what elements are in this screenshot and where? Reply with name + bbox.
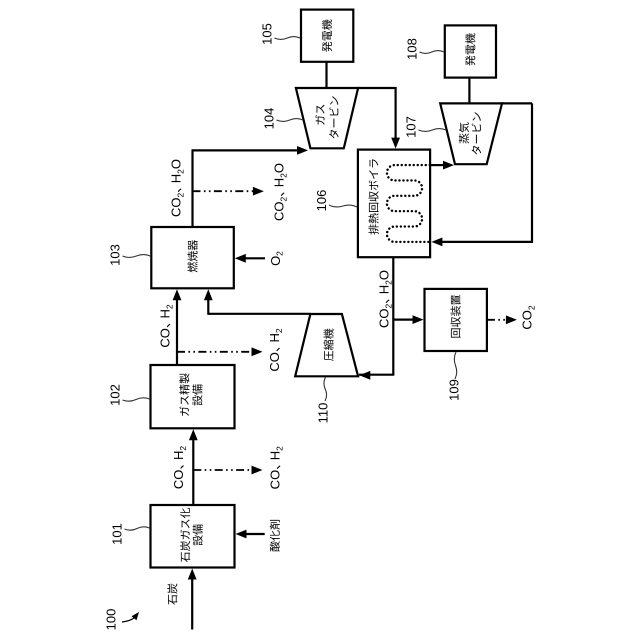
svg-text:O: O <box>268 256 283 266</box>
svg-text:CO: CO <box>268 470 283 490</box>
label CO,H2 below branch arrow <box>268 446 285 489</box>
svg-text:102: 102 <box>108 384 123 406</box>
wire oxidant into 101 <box>245 533 265 535</box>
svg-text:H: H <box>268 451 283 460</box>
svg-text:2: 2 <box>278 197 288 202</box>
svg-text:2: 2 <box>178 446 188 451</box>
leader 101 <box>125 527 150 530</box>
wire 102 to 103 CO,H2 <box>176 298 178 365</box>
svg-text:2: 2 <box>164 304 174 309</box>
wire branch CO,H2 dash-dot from 102-103 <box>177 351 254 353</box>
svg-text:CO: CO <box>272 202 287 222</box>
wire branch CO2,H2O dash-dot from 103-104 <box>193 190 255 192</box>
svg-text:CO: CO <box>169 198 184 218</box>
label CO2,H2O below branch arrow <box>272 163 289 221</box>
wire gas turbine 104 to generator 105 <box>325 62 327 88</box>
arrow for label 100 <box>122 616 137 623</box>
steam turbine 107 trapezoid 蒸気タービン <box>440 103 502 164</box>
wire branch to recovery 109 <box>393 319 414 321</box>
leader 108 <box>420 51 445 54</box>
svg-text:100: 100 <box>104 609 119 631</box>
box 105 generator 発電機 <box>301 10 353 62</box>
label CO,H2 above wire 102-103 <box>158 304 175 347</box>
wire steam turbine 107 to generator 108 <box>468 78 470 104</box>
label CO2,H2O above boiler outlet wire <box>377 270 394 328</box>
box 106 排熱回収ボイラ <box>358 150 430 258</box>
leader 107 <box>419 129 447 132</box>
svg-text:CO: CO <box>267 352 282 372</box>
wire 101 to 102 CO,H2 <box>192 438 194 505</box>
label CO2 out <box>520 305 537 330</box>
svg-text:106: 106 <box>314 190 329 212</box>
leader 103 <box>123 255 151 258</box>
svg-text:H: H <box>267 333 282 342</box>
svg-text:2: 2 <box>274 446 284 451</box>
svg-text:O: O <box>169 159 184 169</box>
label O2 <box>268 251 285 266</box>
svg-text:2: 2 <box>275 251 285 256</box>
svg-text:104: 104 <box>262 108 277 130</box>
leader 110 <box>324 377 327 401</box>
label CO,H2 above wire 101-102 <box>171 446 188 489</box>
svg-text:H: H <box>169 174 184 183</box>
svg-text:109: 109 <box>447 379 462 401</box>
svg-text:CO: CO <box>377 309 392 329</box>
box 101 石炭ガス化設備 <box>151 505 235 568</box>
svg-text:110: 110 <box>316 403 331 424</box>
wire coal feed into 101 <box>191 578 193 630</box>
gas turbine 104 trapezoid ガスタービン <box>296 88 358 148</box>
wire steam return turbine to boiler <box>501 102 532 104</box>
compressor 110 trapezoid 圧縮機 <box>295 314 358 376</box>
svg-text:H: H <box>158 309 173 318</box>
wire CO2 out of 109 dash-dot <box>487 319 508 321</box>
svg-text:CO: CO <box>171 470 186 490</box>
svg-text:CO: CO <box>520 310 535 330</box>
label oxidant 酸化剤 <box>270 520 280 552</box>
box 108 generator 発電機 <box>445 25 496 77</box>
wire gas turbine exhaust to boiler 106 <box>357 87 396 89</box>
leader 105 <box>275 37 301 40</box>
svg-text:2: 2 <box>175 193 185 198</box>
label CO2,H2O above wire 103-104 <box>169 159 186 217</box>
box 103 燃焼器 <box>151 227 234 288</box>
svg-text:108: 108 <box>405 38 420 60</box>
wire O2 into 103 <box>244 257 265 259</box>
wire branch CO,H2 dash-dot from 101-102 <box>193 469 253 471</box>
svg-text:107: 107 <box>404 116 419 138</box>
svg-text:103: 103 <box>108 244 123 266</box>
leader 109 <box>454 352 456 379</box>
leader 106 <box>329 205 357 207</box>
leader 104 <box>277 119 304 122</box>
wire 103 to gas turbine 104 CO2,H2O <box>191 150 193 227</box>
leader 102 <box>123 398 150 401</box>
svg-text:CO: CO <box>158 328 173 348</box>
label CO,H2 below branch arrow 102-103 <box>267 328 284 371</box>
svg-text:2: 2 <box>274 328 284 333</box>
svg-text:2: 2 <box>383 304 393 309</box>
boiler coil dotted serpentine <box>387 165 430 242</box>
svg-text:105: 105 <box>260 23 275 45</box>
svg-text:H: H <box>377 285 392 294</box>
svg-text:H: H <box>272 178 287 187</box>
label coal 石炭 <box>167 583 177 604</box>
wire boiler flue gas to compressor 110 <box>392 257 394 375</box>
box 102 ガス精製設備 <box>151 365 235 428</box>
svg-text:H: H <box>171 451 186 460</box>
svg-text:O: O <box>272 163 287 173</box>
svg-text:O: O <box>377 270 392 280</box>
box 109 recovery 回収装置 <box>425 289 487 351</box>
wire compressor 110 to 103 <box>208 313 310 315</box>
wire steam from boiler to steam turbine 107 <box>430 164 445 166</box>
svg-text:2: 2 <box>526 305 536 310</box>
svg-text:101: 101 <box>110 523 125 545</box>
